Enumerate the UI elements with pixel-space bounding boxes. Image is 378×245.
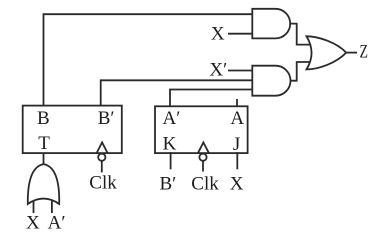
OR gate G3 bbox=[307, 36, 347, 69]
T FF clock triangle bbox=[97, 142, 108, 153]
svg-text:J: J bbox=[233, 134, 240, 155]
wire J input bbox=[236, 152, 238, 169]
svg-text:Z: Z bbox=[360, 42, 369, 63]
AND gate G1 bbox=[252, 9, 290, 39]
svg-text:Clk: Clk bbox=[89, 173, 117, 194]
OR G4 input stub A' bbox=[51, 198, 53, 213]
svg-text:X′: X′ bbox=[209, 60, 227, 81]
T flip-flop box bbox=[23, 106, 122, 154]
svg-text:B: B bbox=[37, 108, 50, 129]
wire AND G2 output to OR G3 lower input bbox=[291, 62, 312, 81]
svg-text:K: K bbox=[163, 134, 177, 155]
svg-text:A′: A′ bbox=[48, 213, 66, 234]
wire B' output to AND gate G2 bbox=[101, 80, 253, 105]
svg-text:A′: A′ bbox=[163, 108, 181, 129]
OR gate G4 bbox=[28, 164, 59, 204]
JK FF clock bubble bbox=[199, 154, 206, 161]
OR G4 input stub X bbox=[33, 198, 35, 213]
svg-text:B′: B′ bbox=[98, 108, 115, 129]
JK FF clock triangle bbox=[198, 143, 209, 154]
wire AND G1 output to OR G3 upper input bbox=[290, 24, 311, 45]
svg-text:Clk: Clk bbox=[191, 174, 219, 195]
T FF clock wire bbox=[101, 161, 103, 173]
JK flip-flop box bbox=[155, 106, 248, 153]
svg-text:X: X bbox=[211, 23, 225, 44]
JK FF clock wire bbox=[202, 161, 204, 172]
svg-text:X: X bbox=[26, 213, 40, 234]
wire K input bbox=[170, 152, 172, 169]
T FF clock bubble bbox=[98, 154, 105, 161]
wire T input from OR G4 bbox=[43, 153, 45, 164]
svg-text:T: T bbox=[38, 133, 50, 154]
wire Z output bbox=[346, 52, 357, 54]
svg-text:X: X bbox=[230, 174, 244, 195]
wire B output to AND gate G1 bbox=[44, 14, 253, 105]
wire X input to AND gate G1 bbox=[228, 33, 252, 35]
stub A output (unconnected) bbox=[236, 99, 238, 106]
svg-text:B′: B′ bbox=[159, 174, 176, 195]
svg-text:A: A bbox=[230, 108, 244, 129]
wire A' output to AND gate G2 bbox=[170, 90, 252, 107]
AND gate G2 bbox=[252, 66, 290, 96]
wire X' input to AND gate G2 bbox=[228, 70, 252, 72]
